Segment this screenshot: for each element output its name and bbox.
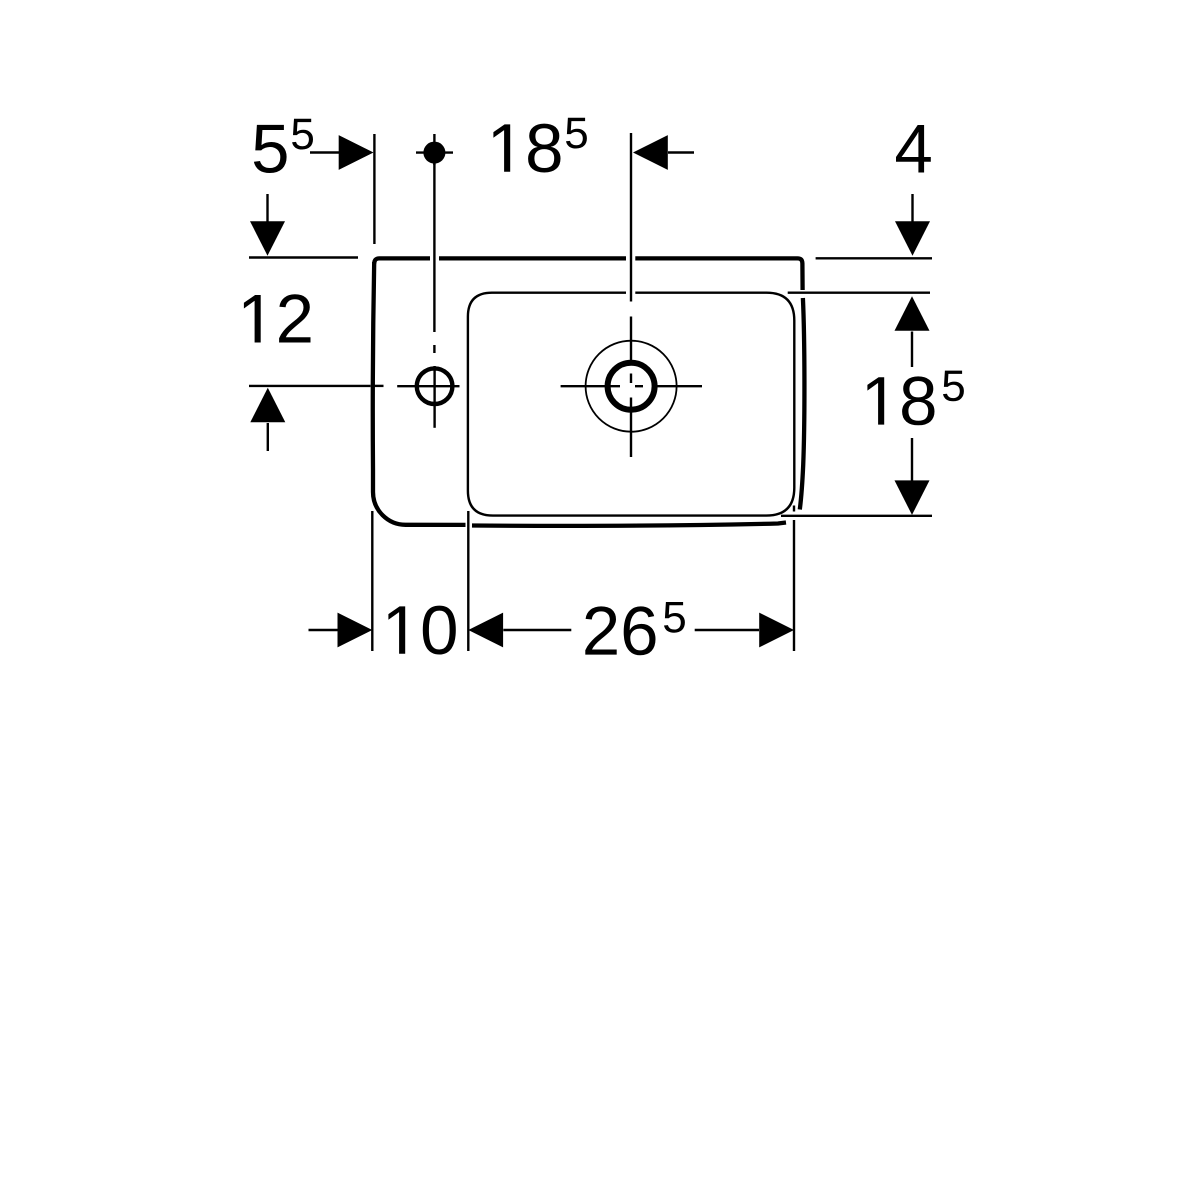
drain center dimension line vertical segments	[630, 133, 632, 302]
tap hole crosshair horizontal	[397, 385, 459, 387]
arrow 4 down-pointing	[895, 221, 930, 256]
basin outer outline left edge	[373, 262, 466, 525]
origin dot tick vertical	[433, 134, 435, 165]
dimension label 5.5	[254, 119, 313, 173]
tap hole ring	[417, 368, 453, 404]
arrow 18.5 right up-pointing with stem	[895, 296, 930, 331]
basin outer outline bottom edge	[472, 523, 786, 526]
basin outer outline top edge	[374, 258, 430, 263]
dimension line 10 tail	[309, 629, 341, 631]
arrow 12 down-pointing with stem	[266, 194, 268, 228]
tap hole center line dash	[433, 345, 435, 353]
arrow tail 18.5 top	[668, 151, 694, 153]
origin dot (tap hole reference)	[423, 142, 445, 164]
extension line basin top edge (left)	[249, 256, 358, 258]
dimension label 12	[244, 294, 311, 342]
dimension label 10	[388, 606, 455, 655]
basin outer outline right edge	[800, 298, 805, 510]
drain crosshair horizontal segments	[561, 385, 620, 387]
dimension label 26.5	[585, 602, 685, 655]
arrow 18.5 right down-pointing with stem	[911, 438, 913, 482]
dimension label 4	[896, 125, 931, 173]
extension line bowl bottom edge (right)	[781, 515, 932, 517]
dimension line 26.5 left tail	[503, 629, 571, 631]
bottom extension line bowl left	[467, 511, 469, 651]
arrow 12 up-pointing with stem	[250, 388, 285, 423]
dimension label 18.5 top	[493, 118, 587, 173]
bottom extension line bowl right	[793, 506, 795, 512]
dimension line 26.5 right tail	[695, 629, 759, 631]
arrow 26.5 left-pointing	[468, 613, 503, 648]
arrow 26.5 right-pointing	[759, 613, 794, 648]
origin dot tick horizontal	[416, 151, 453, 153]
arrow 5.5 right-pointing	[339, 135, 374, 170]
arrow 10 right-pointing	[338, 613, 373, 648]
extension line tap hole center (left)	[249, 385, 371, 387]
dimension line 5.5	[310, 151, 362, 153]
tap hole crosshair vertical	[433, 366, 435, 428]
tap hole center line vertical	[433, 163, 435, 332]
drain outer thin circle	[586, 341, 677, 432]
bottom extension line basin left	[371, 511, 373, 651]
extension line basin left edge (top)	[373, 134, 375, 244]
drain thick ring	[608, 363, 655, 410]
arrow 4 stem	[911, 194, 913, 228]
extension line basin top edge (right)	[816, 257, 932, 259]
arrow 18.5 top left-pointing	[633, 135, 668, 170]
dimension label 18.5 right	[867, 371, 964, 426]
basin bowl outline	[468, 293, 794, 516]
extension line bowl top edge (right)	[788, 292, 930, 294]
